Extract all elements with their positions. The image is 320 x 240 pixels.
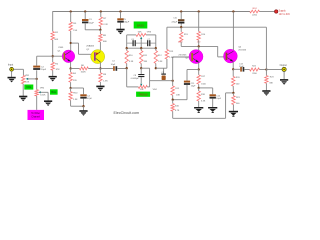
capacitor C5 <box>117 18 123 20</box>
wire treble right riser <box>149 68 151 87</box>
wire C10 to bus <box>180 24 182 28</box>
potentiometer VR4 TREBLE <box>138 85 147 88</box>
svg-text:100µF: 100µF <box>123 22 130 24</box>
capacitor C13 <box>240 67 242 72</box>
wire Q2 collector down <box>99 62 101 68</box>
wire R6 to Q2 collector node <box>88 68 100 70</box>
wire R13 to Q4 base wire <box>180 42 182 46</box>
wire input to ground <box>11 71 13 77</box>
resistor R1 <box>51 32 54 41</box>
resistor R17 <box>197 75 200 84</box>
node Q2 collector junction <box>99 67 101 69</box>
treble wiper arrow <box>140 84 142 86</box>
wire input to VR1 <box>14 68 24 70</box>
wire Q3 emitter <box>198 63 200 70</box>
svg-text:10µF: 10µF <box>111 64 116 66</box>
svg-text:47µF: 47µF <box>87 98 93 100</box>
input terminal <box>10 67 14 71</box>
svg-text:2200: 2200 <box>252 15 258 17</box>
wire rail to C10 <box>180 12 182 20</box>
junction rail-R14 <box>198 10 200 12</box>
wire bass bottom bus <box>127 47 156 49</box>
capacitor C2 <box>33 66 40 68</box>
wire node to R20 <box>232 69 234 76</box>
VR1 wiper arrow <box>26 78 29 80</box>
wire rail corner down left column <box>52 11 54 31</box>
capacitor C7 bass <box>147 40 148 46</box>
node Q1 emitter junction <box>69 67 71 69</box>
wire C13 to R22 <box>244 69 249 71</box>
wire node to R23 <box>265 70 267 76</box>
wire R12 bottom <box>155 64 157 69</box>
node Q3 collector junction <box>198 45 200 47</box>
svg-text:15K: 15K <box>73 30 77 32</box>
wire node to Q3 collector <box>198 46 200 50</box>
wire feedback bus <box>167 26 267 28</box>
junction rail-C3 <box>84 10 86 12</box>
ground below C5 <box>116 29 124 35</box>
svg-text:100K: 100K <box>40 95 46 97</box>
wire C11 to R15 node <box>173 99 187 101</box>
node Q3 emitter junction <box>198 68 200 70</box>
node Q3 base junction <box>172 80 174 82</box>
wire R2 to ground <box>52 70 54 76</box>
resistor R8 <box>99 34 102 42</box>
junction rail-C5 <box>119 10 121 12</box>
wire rail to C5 <box>120 12 122 19</box>
wire bottom feedback run <box>172 111 174 118</box>
svg-text:56K: 56K <box>54 39 58 41</box>
capacitor C6 bass <box>133 40 134 46</box>
ground below VR2 wiper <box>44 100 52 106</box>
ground below R23 <box>262 90 270 96</box>
transistor Q2 2SA684 <box>91 50 105 64</box>
wire C6h to tone input <box>117 68 127 70</box>
wire Q4 emitter <box>232 62 234 70</box>
potentiometer VR2 BAL <box>35 90 38 96</box>
transistor Q4 2SC945 <box>224 49 238 63</box>
wire C12 to ground <box>212 99 214 108</box>
capacitor C6 coupling <box>113 66 115 71</box>
wire R12 top stub <box>155 48 157 50</box>
svg-text:Input: Input <box>8 63 14 66</box>
svg-text:1.3K: 1.3K <box>169 57 174 59</box>
wire C8 to treble wiper <box>140 77 142 83</box>
wire R9 to ground <box>99 82 101 86</box>
wire node to R18 <box>198 88 200 91</box>
wire R10 top stub <box>126 48 128 50</box>
transistor Q1 C945 <box>62 50 75 63</box>
svg-text:TREBLE: TREBLE <box>138 94 148 97</box>
wire node to R8 <box>99 30 101 34</box>
wire R8 to Q2 emitter <box>99 42 101 51</box>
magenta box to-other-channel <box>28 110 45 120</box>
node bass mid <box>140 47 142 49</box>
wire C4 to ground node <box>83 99 85 107</box>
node output junction <box>265 68 267 70</box>
wire bass pot left <box>127 34 136 36</box>
resistor R12 <box>154 51 157 64</box>
svg-text:47K: 47K <box>56 69 60 71</box>
svg-text:50K: 50K <box>140 89 144 91</box>
wire rail to R5 <box>70 12 72 23</box>
wire feedback riser <box>166 27 168 49</box>
wire feedback bus down <box>265 27 267 69</box>
wire wiper node up to C2 <box>36 70 38 79</box>
capacitor C12 <box>210 94 216 96</box>
svg-text:100K: 100K <box>81 72 87 74</box>
resistor R10b <box>69 92 72 101</box>
wire R7 to node <box>99 27 101 30</box>
wire R17 to node <box>198 84 200 88</box>
wire Q1 collector to Q2 base <box>71 42 79 44</box>
svg-text:33K: 33K <box>269 83 273 85</box>
ground below R21 <box>229 111 238 117</box>
wire R15 to node <box>172 95 174 99</box>
resistor R24 <box>250 10 260 13</box>
node bypass ground junction <box>82 105 84 107</box>
junction rail-R5 <box>70 10 72 12</box>
svg-text:3.3K: 3.3K <box>129 61 134 63</box>
green box VOL <box>24 85 33 90</box>
resistor R10 <box>125 51 128 64</box>
svg-text:1.3K: 1.3K <box>103 81 108 83</box>
wire Q3 base riser <box>172 57 174 81</box>
green box TREBLE <box>136 92 150 97</box>
svg-text:10K: 10K <box>25 82 29 84</box>
ground below R18 <box>194 107 203 113</box>
wire Q1 emitter <box>70 62 72 69</box>
wire bus to R13 <box>180 27 182 32</box>
green box BAL <box>50 89 58 94</box>
resistor R16 <box>171 104 174 112</box>
ground below C4 <box>79 110 87 116</box>
wire Q4em to C13 <box>233 68 240 70</box>
wire C11 down <box>186 85 188 100</box>
svg-text:C945: C945 <box>58 47 64 49</box>
wire treble pot right stub <box>147 86 149 88</box>
wire C9 stub <box>163 68 165 73</box>
wire R4 to node <box>70 82 72 88</box>
green box BASS <box>134 22 148 29</box>
svg-text:12V to 34V: 12V to 34V <box>279 13 291 16</box>
wire R1 to base node <box>52 40 54 62</box>
svg-text:2SA684: 2SA684 <box>86 45 95 48</box>
svg-text:10µF: 10µF <box>41 69 47 71</box>
node bass left <box>126 47 128 49</box>
node bus-C10 junction <box>180 26 182 28</box>
output terminal <box>282 67 286 71</box>
wire tone left riser <box>126 68 128 87</box>
node R20-R21 junction <box>232 92 234 94</box>
node Q4 emitter junction <box>232 68 234 70</box>
ground below VR1 <box>19 96 27 102</box>
wire bass wiper down <box>140 39 142 48</box>
capacitor C3 <box>82 19 88 21</box>
node Q1 base junction <box>52 55 54 57</box>
svg-text:Channel: Channel <box>31 117 40 119</box>
node tone input junction <box>126 67 128 69</box>
svg-text:33K: 33K <box>144 61 148 63</box>
wire rail to supply terminal <box>259 11 274 13</box>
svg-text:10µF: 10µF <box>89 22 95 24</box>
wire bass pot right <box>146 34 156 36</box>
svg-text:Supply: Supply <box>279 10 287 12</box>
wire C8 stub <box>140 68 142 74</box>
ground below R2 <box>49 76 57 82</box>
capacitor C4 bypass <box>80 94 86 96</box>
wire output to ground <box>283 72 285 80</box>
wire R11 top stub <box>140 48 142 50</box>
svg-text:10µF: 10µF <box>216 98 222 100</box>
wire rail to R14 <box>198 12 200 32</box>
svg-text:To Other: To Other <box>31 112 40 115</box>
capacitor C8 <box>138 74 144 75</box>
wire Q3em to C11 <box>187 69 199 71</box>
wire node to R10b <box>70 88 72 92</box>
wire Q4 base run <box>181 45 218 47</box>
resistor R20 <box>232 77 235 87</box>
wire wiper node to VR2 <box>36 79 38 90</box>
resistor R22 <box>250 68 260 71</box>
node R7-R8-C3 junction <box>99 29 101 31</box>
wire R10b to ground node <box>70 100 72 106</box>
capacitor C9 <box>161 74 166 75</box>
svg-text:2SC945: 2SC945 <box>238 49 247 51</box>
svg-text:3.3K: 3.3K <box>158 61 163 63</box>
wire R22 to output node <box>259 69 266 71</box>
resistor R7 <box>99 17 102 27</box>
resistor R11 <box>140 51 143 64</box>
node VR1 wiper junction <box>36 78 38 80</box>
wire C5 to ground <box>120 23 122 29</box>
svg-text:10µF: 10µF <box>239 66 245 68</box>
svg-text:ElecCircuit.com: ElecCircuit.com <box>114 111 140 115</box>
wire R12 to R19 link <box>156 67 167 69</box>
svg-text:BASS: BASS <box>137 24 144 28</box>
wire R11 bottom <box>140 64 142 69</box>
wire R18 to ground <box>198 101 200 107</box>
wire node to R16 <box>172 100 174 104</box>
node bass right <box>155 47 157 49</box>
wire node to R9 <box>99 69 101 73</box>
wire R21 to ground <box>232 105 234 112</box>
ground below R9 <box>96 86 104 92</box>
junction rail-C10 <box>180 10 182 12</box>
resistor R2 <box>51 62 54 70</box>
wire C3 to R8 node <box>84 23 86 30</box>
junction rail-Q4 <box>232 10 234 12</box>
ground below input <box>8 77 16 83</box>
svg-text:1.8K: 1.8K <box>176 95 181 97</box>
node R17-R18 junction <box>198 87 200 89</box>
wire Q1em to R6 <box>71 68 80 70</box>
transistor Q3 2SC945 <box>189 50 203 64</box>
svg-text:3.3K: 3.3K <box>201 100 206 102</box>
resistor R6 feedback <box>80 67 89 70</box>
svg-text:220µF: 220µF <box>171 22 177 24</box>
wire to ground stem <box>83 106 85 110</box>
resistor R5 <box>69 22 72 31</box>
svg-text:4.7K: 4.7K <box>175 110 180 112</box>
wire VR2 wiper to ground <box>41 91 49 93</box>
potentiometer VR1 VOL <box>22 75 25 83</box>
wire VR1 wiper <box>28 78 37 80</box>
node R15-R16 junction <box>172 99 174 101</box>
resistor R4 <box>69 72 72 82</box>
wire rail to R7 <box>100 12 102 18</box>
resistor R9 <box>99 73 102 82</box>
svg-text:VOL: VOL <box>26 86 32 89</box>
ground below output <box>280 79 288 85</box>
wire node to R21 <box>232 93 234 96</box>
node Q1 collector junction <box>70 42 72 44</box>
capacitor C10 <box>178 19 184 21</box>
potentiometer VR3 BASS <box>136 33 146 36</box>
resistor R19 <box>165 50 168 60</box>
wire rail to Q4 collector <box>232 12 234 51</box>
resistor R21 <box>232 96 235 105</box>
wire R14 to collector node <box>198 40 200 46</box>
svg-text:1.3K: 1.3K <box>73 99 78 101</box>
wire VR2 to other channel box <box>36 96 38 110</box>
wire node to C6h <box>100 68 113 70</box>
supply terminal <box>275 10 278 13</box>
wire base node to R15 <box>172 81 174 86</box>
wire emitter to R4 <box>70 69 72 73</box>
wire R5 to Q1 collector <box>70 31 72 51</box>
node tone mid junction <box>140 67 142 69</box>
resistor R23 <box>265 76 268 84</box>
wire VR1 to ground <box>22 84 24 96</box>
resistor R13 <box>180 32 183 42</box>
svg-text:BAL: BAL <box>51 91 56 94</box>
junction rail-R7 <box>100 10 102 12</box>
resistor R14 <box>197 32 200 41</box>
wire R20 to node <box>232 86 234 93</box>
wire rail to C3 <box>84 12 86 20</box>
svg-text:Output: Output <box>280 64 288 67</box>
VR3 wiper arrow <box>140 37 142 39</box>
resistor R18 <box>197 91 200 101</box>
wire C2 to Q1 base <box>36 56 38 66</box>
svg-text:2.2K: 2.2K <box>103 24 108 26</box>
ground below C12 <box>208 107 217 113</box>
svg-text:0.0033µF: 0.0033µF <box>131 78 140 80</box>
resistor R15 <box>171 86 174 95</box>
svg-text:10µF: 10µF <box>191 86 196 88</box>
node R12 bottom junction <box>155 67 157 69</box>
svg-text:2SC945: 2SC945 <box>178 54 187 56</box>
wire treble pot left stub <box>127 86 139 88</box>
capacitor C11 <box>184 81 190 83</box>
wire emitter to R17 <box>198 70 200 75</box>
wire node to C12 <box>199 87 213 89</box>
wire node to output terminal <box>266 69 282 71</box>
wire R10 bottom <box>126 64 128 69</box>
node Q1 emitter lower junction <box>69 87 71 89</box>
wire top supply rail <box>53 11 250 13</box>
VR2 wiper arrow <box>38 91 40 93</box>
wire tone tap <box>150 80 173 82</box>
wire R23 to ground <box>265 83 267 90</box>
wire bypass branch <box>71 87 84 89</box>
